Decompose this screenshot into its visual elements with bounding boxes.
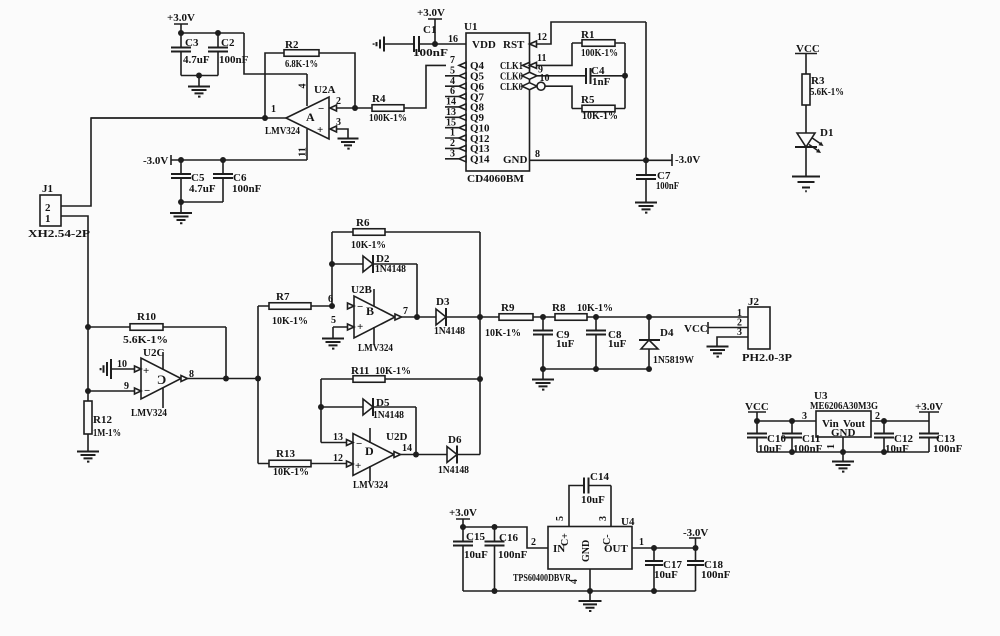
svg-text:1N4148: 1N4148 — [434, 325, 465, 337]
svg-text:D6: D6 — [448, 434, 462, 446]
resistor R7 — [258, 291, 332, 327]
diode D6 1N4148 — [438, 434, 480, 476]
wire R4 left — [355, 107, 372, 109]
svg-text:2: 2 — [450, 138, 455, 149]
resistor R1 — [572, 29, 625, 59]
capacitor C8 — [586, 317, 627, 369]
wire U2C output — [188, 378, 259, 380]
junction C12 bottom — [881, 449, 887, 455]
svg-text:U2C: U2C — [143, 347, 164, 359]
svg-text:10uF: 10uF — [758, 443, 782, 455]
junction D3/R9 — [477, 314, 483, 320]
svg-text:C+: C+ — [560, 533, 571, 546]
svg-text:3: 3 — [737, 327, 742, 338]
svg-text:3: 3 — [450, 148, 455, 159]
svg-text:6: 6 — [450, 86, 455, 97]
diode D5 1N4148 — [321, 397, 416, 421]
junction C16 bottom — [492, 588, 498, 594]
svg-text:PH2.0-3P: PH2.0-3P — [742, 352, 792, 364]
svg-text:4.7uF: 4.7uF — [183, 54, 210, 66]
diode D4 1N5819W — [639, 317, 694, 369]
svg-text:B: B — [366, 304, 374, 318]
junction C17 top — [651, 545, 657, 551]
power +3.0V (C1/VDD) — [417, 7, 445, 44]
junction C11 top — [789, 418, 795, 424]
junction C16 top — [492, 524, 498, 530]
svg-text:13: 13 — [333, 432, 343, 443]
svg-text:CLK0: CLK0 — [500, 81, 523, 93]
svg-text:100K-1%: 100K-1% — [369, 112, 407, 124]
IC U1 CD4060BM body — [464, 21, 530, 185]
svg-text:9: 9 — [124, 381, 129, 392]
power VCC (J2 pin2) — [684, 322, 748, 335]
svg-text:1nF: 1nF — [592, 76, 611, 88]
svg-text:+: + — [317, 124, 323, 136]
svg-text:10K-1%: 10K-1% — [351, 239, 386, 251]
resistor R10 — [88, 311, 226, 346]
ground (C1 left, rotated) — [374, 37, 414, 52]
LED D1 — [795, 127, 833, 153]
capacitor C14 — [581, 471, 609, 506]
svg-text:11: 11 — [537, 53, 546, 64]
svg-text:100nF: 100nF — [656, 180, 679, 192]
svg-text:1: 1 — [450, 128, 455, 139]
svg-text:1uF: 1uF — [556, 338, 575, 350]
junction GND pin bottom — [587, 588, 593, 594]
resistor R5 — [572, 94, 625, 122]
svg-text:CD4060BM: CD4060BM — [467, 173, 525, 185]
svg-text:1: 1 — [639, 537, 644, 548]
junction U2B pin6 — [329, 303, 335, 309]
junction GND bottom — [840, 449, 846, 455]
capacitor C9 — [533, 317, 575, 369]
svg-text:−: − — [318, 103, 324, 115]
svg-text:2: 2 — [336, 96, 341, 107]
ground (U3) — [832, 452, 854, 472]
diode D2 1N4148 — [332, 253, 417, 275]
svg-text:100nF: 100nF — [933, 443, 963, 455]
junction D2 left — [329, 261, 335, 267]
svg-text:R1: R1 — [581, 29, 594, 41]
pin 5 wire — [569, 486, 584, 527]
svg-text:LMV324: LMV324 — [358, 342, 393, 354]
svg-text:100nF: 100nF — [793, 443, 823, 455]
resistor R9 — [480, 302, 543, 339]
junction D5 feedback — [413, 452, 419, 458]
wire +3.0V rail to IN — [463, 527, 548, 548]
wire top-left rail — [181, 32, 244, 34]
pin 1 OUT wire — [632, 547, 696, 549]
junction C15 top — [460, 524, 466, 530]
svg-text:1uF: 1uF — [608, 338, 627, 350]
svg-text:1: 1 — [271, 104, 276, 115]
resistor R2 — [284, 39, 319, 70]
capacitor C4 — [586, 65, 625, 88]
svg-text:LMV324: LMV324 — [131, 407, 167, 419]
junction U2C pin9 — [85, 388, 91, 394]
wire +3.0V rail to U2A V+ pin — [244, 33, 307, 74]
power -3.0V (U2A rail) — [143, 155, 307, 167]
svg-text:12: 12 — [537, 32, 547, 43]
svg-text:R12: R12 — [93, 414, 112, 426]
svg-text:U2D: U2D — [386, 431, 407, 443]
wire U2D output — [401, 454, 448, 456]
wire pin2 to +3.0V — [871, 420, 929, 422]
wire U2B output — [402, 316, 437, 318]
ground (J2 pin3) — [707, 347, 729, 357]
svg-text:1M-1%: 1M-1% — [93, 427, 121, 439]
svg-text:3: 3 — [598, 516, 609, 521]
junction C6 top — [220, 157, 226, 163]
pin 9 CLK0 wire — [522, 65, 586, 80]
svg-text:6: 6 — [328, 294, 333, 305]
junction R10 feedback — [223, 376, 229, 382]
wire R11 left down to pin13 — [320, 379, 322, 443]
wire U2A pin2 — [337, 107, 356, 109]
capacitor C10 — [747, 421, 786, 455]
capacitor C2 — [208, 33, 249, 76]
svg-text:10K-1%: 10K-1% — [272, 315, 308, 327]
junction output branch — [255, 376, 261, 382]
power -3.0V (U4 out) — [683, 527, 708, 548]
junction at C5 bottom — [178, 199, 184, 205]
pin 7 output arrow — [395, 314, 402, 320]
wire C9/C8/D4 bottom rail — [543, 368, 649, 370]
ground (U4) — [579, 591, 602, 611]
svg-text:RST: RST — [503, 39, 525, 51]
svg-text:5: 5 — [555, 516, 566, 521]
svg-text:R10: R10 — [137, 311, 156, 323]
junction C18 top — [693, 545, 699, 551]
IC U4 TPS60400DBVR body — [513, 516, 635, 584]
svg-text:10uF: 10uF — [654, 569, 678, 581]
ground (C3/C2) — [188, 76, 210, 97]
svg-text:100nF: 100nF — [701, 569, 731, 581]
wire J1 pin1 down to U2C — [61, 216, 88, 401]
resistor R12 — [84, 401, 121, 439]
resistor R3 — [802, 74, 844, 105]
U1 Q output pins Q4-Q14 — [445, 55, 490, 166]
svg-text:5: 5 — [331, 315, 336, 326]
wire right rail (R6/D3/R9/R11/D6) — [479, 232, 481, 455]
op-amp U2C — [131, 347, 181, 419]
capacitor C3 — [171, 33, 210, 76]
connector J2 PH2.0-3P — [737, 296, 792, 364]
svg-text:J2: J2 — [748, 296, 760, 308]
capacitor C11 — [782, 421, 823, 455]
svg-text:1N4148: 1N4148 — [438, 464, 469, 476]
junction C8 top — [593, 314, 599, 320]
capacitor C12 — [874, 421, 913, 455]
wire U2A pin3 to ground — [337, 129, 349, 138]
svg-text:-3.0V: -3.0V — [143, 155, 168, 167]
resistor R6 — [332, 217, 480, 251]
svg-text:R13: R13 — [276, 448, 295, 460]
junction C8 bottom — [593, 366, 599, 372]
wire R4 right to U1 Q4 — [404, 65, 446, 108]
wire C3/C2 bottom rail — [181, 75, 218, 77]
svg-text:D: D — [365, 444, 374, 458]
svg-text:4: 4 — [569, 579, 580, 584]
svg-text:4: 4 — [298, 84, 309, 89]
pin 11 CLK1 wire — [523, 43, 573, 68]
junction C17 bottom — [651, 588, 657, 594]
junction C1/VDD/+3.0V — [432, 41, 438, 47]
svg-text:A: A — [306, 110, 315, 124]
svg-text:R8: R8 — [552, 302, 566, 314]
ground (U2C pin10, rotated) — [101, 359, 135, 379]
svg-text:+: + — [143, 365, 149, 377]
wire U3 bottom rail — [757, 451, 929, 453]
svg-text:TPS60400DBVR: TPS60400DBVR — [513, 572, 572, 584]
svg-text:R7: R7 — [276, 291, 290, 303]
svg-text:7: 7 — [450, 55, 455, 66]
svg-text:8: 8 — [535, 149, 540, 160]
wire C5/C6 bottom — [181, 201, 223, 203]
svg-text:J1: J1 — [42, 183, 53, 195]
capacitor C5 — [171, 160, 216, 202]
wire J1 pin2 up to U2A output — [61, 118, 265, 206]
svg-text:5.6K-1%: 5.6K-1% — [123, 334, 168, 346]
svg-text:7: 7 — [403, 306, 408, 317]
svg-text:U4: U4 — [621, 516, 635, 528]
svg-text:C14: C14 — [590, 471, 609, 483]
svg-text:100nF: 100nF — [413, 47, 448, 59]
power +3.0V (U3 out) — [915, 401, 943, 421]
svg-text:+3.0V: +3.0V — [167, 12, 195, 24]
ground (R12) — [77, 452, 99, 462]
svg-text:10: 10 — [117, 359, 127, 370]
ground (D1) — [792, 177, 820, 192]
svg-text:−: − — [357, 301, 363, 313]
svg-text:5: 5 — [450, 65, 455, 76]
wire U4 bottom rail — [463, 590, 696, 592]
capacitor C15 — [453, 527, 488, 591]
svg-text:13: 13 — [446, 107, 456, 118]
wire J2 pin3 to ground — [717, 337, 748, 346]
svg-text:C15: C15 — [466, 531, 485, 543]
svg-text:+: + — [357, 321, 363, 333]
svg-text:+3.0V: +3.0V — [417, 7, 445, 19]
svg-text:100K-1%: 100K-1% — [581, 47, 618, 59]
svg-text:10K-1%: 10K-1% — [485, 327, 521, 339]
svg-text:6.8K-1%: 6.8K-1% — [285, 58, 318, 70]
pin 8 GND wire — [530, 149, 673, 160]
svg-text:R11: R11 — [351, 365, 369, 377]
svg-text:3: 3 — [336, 117, 341, 128]
resistor R13 — [258, 448, 347, 478]
svg-text:10K-1%: 10K-1% — [582, 110, 618, 122]
svg-text:+: + — [355, 460, 361, 472]
ground (C9 rail) — [532, 369, 554, 390]
junction U2A output feedback — [262, 115, 268, 121]
wire RST rail down right side — [645, 22, 647, 160]
svg-text:C3: C3 — [185, 37, 199, 49]
svg-text:R2: R2 — [285, 39, 299, 51]
wire feedback vertical — [265, 53, 284, 118]
svg-text:C: C — [157, 372, 166, 387]
wire R1/C4/R5 right rail — [624, 43, 626, 109]
op-amp U2B — [348, 284, 396, 354]
power +3.0V (C3/C2 rail) — [167, 12, 195, 33]
pin 14 output arrow — [394, 452, 401, 458]
junction C11 bottom — [789, 449, 795, 455]
svg-text:U2A: U2A — [314, 84, 335, 96]
svg-text:10uF: 10uF — [581, 494, 605, 506]
svg-text:LMV324: LMV324 — [265, 125, 300, 137]
svg-text:XH2.54-2P: XH2.54-2P — [28, 228, 90, 240]
svg-text:GND: GND — [503, 154, 528, 166]
svg-text:U2B: U2B — [351, 284, 372, 296]
junction C4 right — [622, 73, 628, 79]
junction D5 left — [318, 404, 324, 410]
svg-text:1N4148: 1N4148 — [375, 263, 406, 275]
svg-text:U1: U1 — [464, 21, 477, 33]
pin 12 RST wire — [530, 22, 647, 47]
junction D2 feedback — [414, 314, 420, 320]
svg-text:GND: GND — [581, 540, 592, 562]
svg-text:Q14: Q14 — [470, 154, 490, 166]
svg-text:10K-1%: 10K-1% — [577, 302, 613, 314]
junction at C3 top — [178, 30, 184, 36]
wire branch vertical R7/R13 — [257, 306, 259, 464]
junction R11 right — [477, 376, 483, 382]
wire D2 right down to output — [416, 264, 418, 317]
capacitor C6 — [213, 160, 262, 202]
power VCC (U3 in) — [745, 401, 769, 421]
svg-text:5.6K-1%: 5.6K-1% — [810, 86, 844, 98]
pin 3 wire — [589, 486, 612, 527]
wire R8 to J2 pin1 — [596, 316, 748, 318]
wire R10 right down to output — [225, 327, 227, 379]
op-amp U2D — [347, 428, 408, 491]
svg-text:1N5819W: 1N5819W — [653, 354, 694, 366]
ground (C5/C6) — [170, 202, 192, 223]
capacitor C18 — [687, 548, 731, 591]
svg-text:OUT: OUT — [604, 543, 629, 555]
svg-text:C16: C16 — [499, 532, 518, 544]
svg-text:D4: D4 — [660, 327, 674, 339]
resistor R11 — [321, 365, 480, 382]
pin 4 GND wire — [589, 569, 591, 591]
connector J1 XH2.54-2P — [28, 183, 90, 240]
svg-text:VCC: VCC — [684, 323, 708, 335]
svg-text:D1: D1 — [820, 127, 833, 139]
junction GND/C7 — [643, 157, 649, 163]
svg-text:R9: R9 — [501, 302, 515, 314]
svg-text:100nF: 100nF — [498, 549, 528, 561]
capacitor C13 — [919, 421, 963, 455]
svg-text:R5: R5 — [581, 94, 595, 106]
svg-text:D3: D3 — [436, 296, 450, 308]
pin 13 wire — [321, 442, 347, 444]
svg-text:ME6206A30M3G: ME6206A30M3G — [810, 400, 878, 412]
ground (U2B pin5) — [322, 339, 344, 349]
power VCC (R3) — [795, 43, 820, 74]
resistor R8 — [543, 302, 613, 320]
junction at ground lead — [196, 73, 202, 79]
svg-text:14: 14 — [402, 443, 412, 454]
capacitor C16 — [485, 527, 528, 591]
svg-text:R4: R4 — [372, 93, 386, 105]
junction C9 top — [540, 314, 546, 320]
svg-text:VDD: VDD — [472, 39, 496, 51]
diode D3 1N4148 — [434, 296, 480, 337]
wire U2A output to J1 — [91, 117, 286, 119]
svg-text:D5: D5 — [376, 397, 390, 409]
svg-text:C2: C2 — [221, 37, 235, 49]
wire D5 right down to output — [415, 407, 417, 455]
svg-text:R6: R6 — [356, 217, 370, 229]
pin 9 wire — [88, 390, 135, 392]
junction C9 bottom — [540, 366, 546, 372]
svg-text:−: − — [356, 438, 362, 450]
junction C5 top — [178, 157, 184, 163]
svg-text:-3.0V: -3.0V — [675, 154, 700, 166]
svg-text:10K-1%: 10K-1% — [273, 466, 309, 478]
pin 5 wire to ground — [333, 327, 348, 338]
ground (U2A pin3) — [338, 139, 359, 149]
wire U3 GND pin — [842, 437, 844, 452]
power +3.0V (U4 in) — [449, 507, 477, 527]
svg-text:10uF: 10uF — [885, 443, 909, 455]
junction pin2/R2/R4 — [352, 105, 358, 111]
wire R12 to ground — [87, 434, 89, 451]
svg-text:100nF: 100nF — [232, 183, 262, 195]
junction D4 bottom — [646, 366, 652, 372]
wire pin6 node up to R6 — [331, 232, 333, 306]
junction at C2 top — [215, 30, 221, 36]
wire R3 to D1 — [805, 105, 807, 133]
svg-text:2: 2 — [531, 537, 536, 548]
svg-text:12: 12 — [333, 453, 343, 464]
svg-text:14: 14 — [446, 97, 456, 108]
svg-text:11: 11 — [298, 147, 309, 156]
junction R10 left — [85, 324, 91, 330]
resistor R4 — [369, 93, 407, 124]
svg-text:4.7uF: 4.7uF — [189, 183, 216, 195]
svg-text:10uF: 10uF — [464, 549, 488, 561]
wire R2 right to U2A pin2 node — [319, 53, 355, 108]
capacitor C17 — [645, 548, 682, 591]
pin 10 CLK0 inverted wire — [522, 73, 572, 109]
svg-text:1: 1 — [45, 213, 51, 225]
wire VCC rail to pin3 — [757, 420, 816, 422]
junction C10 top — [754, 418, 760, 424]
ground (C7) — [635, 203, 657, 213]
svg-text:1N4148: 1N4148 — [373, 409, 404, 421]
capacitor C1 — [413, 24, 466, 59]
power -3.0V (U1 GND) — [672, 154, 700, 166]
svg-text:10K-1%: 10K-1% — [375, 365, 411, 377]
svg-text:1: 1 — [826, 444, 837, 449]
pin 8 output arrow — [181, 376, 188, 382]
junction C12 top — [881, 418, 887, 424]
svg-text:+3.0V: +3.0V — [449, 507, 477, 519]
svg-text:−: − — [144, 385, 150, 397]
capacitor C7 — [636, 160, 679, 202]
regulator U3 ME6206A30M3G — [810, 390, 878, 439]
op-amp U2A — [265, 74, 341, 160]
junction D4 top — [646, 314, 652, 320]
wire D1 to ground — [805, 147, 807, 176]
svg-text:10: 10 — [540, 73, 550, 84]
svg-text:16: 16 — [448, 34, 458, 45]
